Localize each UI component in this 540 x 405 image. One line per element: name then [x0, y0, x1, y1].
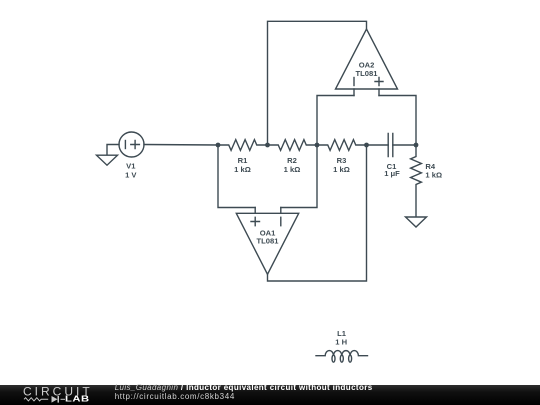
op-amp U OA2 triangle	[336, 29, 398, 89]
wire OA2 + input to node E	[379, 96, 416, 146]
pin OA2 non-inverting input stub	[378, 89, 380, 96]
svg-text:TL081: TL081	[257, 237, 280, 246]
svg-text:R3: R3	[337, 156, 347, 165]
pin OA1 non-inverting input stub	[254, 208, 256, 214]
svg-text:R1: R1	[238, 156, 248, 165]
node A junction	[216, 143, 221, 148]
resistor R1	[218, 140, 268, 151]
CircuitLab logo	[0, 385, 110, 405]
capacitor C1	[388, 134, 393, 157]
svg-text:1 kΩ: 1 kΩ	[425, 171, 442, 180]
inductor L1 loop 3	[349, 355, 352, 362]
wire OA1 output to node D	[268, 145, 367, 281]
wire OA2 - input to node C	[317, 96, 354, 146]
inductor L1	[316, 351, 367, 356]
V1 plus mark	[131, 141, 140, 149]
OA2 minus mark	[353, 78, 355, 86]
wire node C down to OA1 - bracket	[281, 145, 317, 208]
wire C1 right plate to node E	[393, 144, 416, 146]
ground G2	[406, 217, 427, 227]
svg-text:1 kΩ: 1 kΩ	[333, 165, 350, 174]
svg-text:1 kΩ: 1 kΩ	[284, 165, 301, 174]
footer bar	[0, 385, 540, 405]
V1 minus mark	[124, 141, 126, 149]
inductor L1 loop 2	[340, 355, 343, 362]
resistor R2	[268, 140, 318, 151]
op-amp U OA1 triangle	[236, 213, 298, 274]
svg-text:TL081: TL081	[356, 69, 379, 78]
node C junction	[315, 143, 320, 148]
node D junction	[364, 143, 369, 148]
OA1 minus mark	[280, 217, 282, 225]
svg-text:1 μF: 1 μF	[384, 169, 400, 178]
node E junction	[414, 143, 419, 148]
resistor R4	[411, 145, 422, 217]
OA2 plus mark	[375, 78, 383, 86]
pin OA1 inverting input stub	[280, 208, 282, 214]
svg-text:1 kΩ: 1 kΩ	[234, 165, 251, 174]
pin OA2 inverting input stub	[353, 89, 355, 96]
resistor R3	[317, 140, 367, 151]
OA1 plus mark	[251, 217, 260, 225]
wire V1 positive terminal to node A	[144, 144, 218, 147]
node B junction	[265, 143, 270, 148]
inductor L1 loop 1	[332, 355, 335, 362]
svg-text:V1: V1	[126, 162, 136, 171]
wire node D to C1 left plate	[367, 144, 389, 146]
svg-text:1 V: 1 V	[125, 171, 137, 180]
ground G1	[97, 155, 118, 165]
svg-text:LAB: LAB	[65, 395, 90, 404]
svg-text:1 H: 1 H	[335, 338, 347, 347]
wire V1 negative terminal to ground	[107, 145, 119, 156]
wire OA2 output loop: apex up, left, down to node B	[268, 21, 367, 145]
wire node A down to OA1 + bracket	[218, 145, 255, 208]
svg-text:R2: R2	[287, 156, 297, 165]
voltage source V1	[119, 132, 144, 157]
